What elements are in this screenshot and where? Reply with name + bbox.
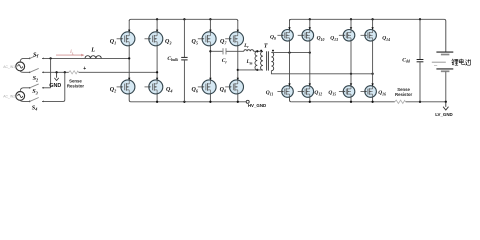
label Q12	[314, 90, 322, 96]
junction bottom rail x157.1	[156, 101, 158, 103]
wire mid leg3	[209, 46, 211, 81]
label Q15	[328, 90, 336, 96]
junction sec top rail x351.0	[350, 18, 352, 20]
wire sec bottom lead leg3	[350, 97, 352, 102]
phase dot primary	[260, 50, 262, 52]
wire top lead leg1	[128, 20, 130, 32]
node GND tap	[55, 71, 57, 73]
mosfet Q8	[225, 80, 243, 94]
label Q14	[382, 35, 390, 41]
mosfet Q5	[198, 32, 216, 46]
wire secondary top rail	[290, 19, 446, 51]
capacitor Cdd	[402, 19, 423, 102]
node S4 tap on line B	[64, 71, 66, 73]
label Q8	[220, 87, 227, 93]
ac source AC_IN2	[3, 92, 24, 101]
label Q3	[165, 39, 171, 45]
label Q6	[192, 87, 199, 93]
node sec bottom leg3	[350, 73, 352, 75]
wire sec mid leg1	[288, 41, 290, 86]
switch S4	[29, 98, 44, 112]
wire top lead leg4	[237, 20, 239, 32]
current arrow iL	[56, 49, 85, 56]
mosfet Q10	[298, 30, 314, 42]
wire secondary bottom wire	[271, 71, 372, 74]
mosfet Q16	[361, 86, 377, 98]
wire sec top lead leg1	[288, 19, 290, 30]
wire mid leg1	[128, 46, 130, 81]
junction top rail x157.1	[156, 18, 158, 20]
wire sec top lead leg3	[350, 19, 352, 30]
svg-text:Q1: Q1	[110, 39, 116, 45]
junction sec bottom rail x309.8	[309, 101, 311, 103]
wire tank bottom	[238, 69, 263, 71]
node S3 tap on line A	[49, 57, 51, 59]
wire secondary top wire	[271, 52, 309, 54]
label Q10	[317, 35, 325, 41]
svg-text:Resistor: Resistor	[67, 84, 85, 89]
plus sign sense1	[83, 66, 86, 72]
wire secondary bottom rail	[291, 101, 446, 103]
label Q16	[378, 90, 386, 96]
wire bottom lead leg4	[237, 94, 239, 102]
svg-text:+: +	[83, 66, 86, 72]
sense resistor 2	[395, 87, 413, 103]
mosfet Q15	[339, 86, 355, 98]
transformer core	[267, 51, 269, 70]
inductor Lr	[243, 43, 253, 52]
phase dot secondary	[272, 50, 274, 52]
wire AC2 top stub	[20, 88, 29, 92]
wire Lr to transformer	[254, 50, 263, 52]
svg-text:HV_GND: HV_GND	[248, 103, 266, 108]
wire line A	[42, 57, 129, 59]
junction top rail x184.4	[183, 18, 185, 20]
label Q2	[110, 87, 116, 93]
junction sec top rail x309.8	[309, 18, 311, 20]
svg-text:GND: GND	[49, 83, 61, 89]
node battery bottom	[445, 101, 447, 103]
svg-text:LV_GND: LV_GND	[435, 112, 452, 117]
transformer T secondary winding	[271, 52, 273, 70]
wire sec bottom lead leg2	[309, 97, 311, 102]
transformer T primary winding	[261, 52, 263, 70]
label Q5	[192, 39, 198, 45]
svg-text:Q5: Q5	[192, 39, 198, 45]
node sec bottom leg4	[371, 73, 373, 75]
wire sec top lead leg2	[309, 19, 311, 30]
wire primary top rail	[129, 19, 238, 21]
wire tank top	[210, 50, 222, 52]
mosfet Q9	[277, 30, 293, 42]
ground LV_GND	[435, 102, 452, 117]
battery cell plates	[432, 52, 454, 71]
node A	[128, 57, 130, 59]
wire bottom lead leg2	[156, 94, 158, 102]
switch S1	[29, 51, 44, 59]
wire sec mid leg3	[350, 41, 352, 86]
svg-text:Q6: Q6	[192, 87, 199, 93]
terminal HV_GND	[246, 100, 266, 108]
junction bottom rail x237.8	[237, 101, 239, 103]
label T	[264, 42, 268, 49]
svg-text:L: L	[90, 47, 95, 54]
switch S3	[29, 84, 44, 96]
node sec top leg2	[309, 51, 311, 53]
wire S3 horizontal	[42, 87, 51, 89]
svg-text:T: T	[264, 42, 268, 49]
wire sec bottom lead leg1 + rail corner	[290, 97, 292, 102]
svg-text:Q7: Q7	[220, 39, 227, 45]
svg-text:Q2: Q2	[110, 87, 116, 93]
junction sec top rail x420.0	[419, 18, 421, 20]
wire S3 riser	[50, 58, 52, 87]
junction top rail x210.4	[209, 18, 211, 20]
mosfet Q6	[198, 80, 216, 94]
mosfet Q1	[117, 32, 135, 46]
sense resistor 1	[67, 71, 85, 89]
inductor Lm	[246, 51, 258, 70]
junction sec bottom rail x351.0	[350, 101, 352, 103]
svg-text:AC_IN1: AC_IN1	[3, 65, 15, 69]
junction bottom rail x184.4	[183, 101, 185, 103]
wire Cr to Lr	[226, 50, 244, 52]
svg-text:Q8: Q8	[220, 87, 227, 93]
wire mid leg4	[237, 46, 239, 81]
junction bottom rail x210.4	[209, 101, 211, 103]
svg-text:Q4: Q4	[166, 87, 172, 93]
mosfet Q4	[145, 80, 163, 94]
wire top lead leg2	[156, 19, 158, 32]
svg-text:AC_IN2: AC_IN2	[3, 95, 15, 99]
wire mid leg2	[156, 46, 158, 81]
wire sec mid leg2	[309, 41, 311, 86]
wire bottom lead leg3	[209, 94, 211, 102]
label Q1	[110, 39, 116, 45]
wire bottom lead leg1 + bottom rail corner	[129, 94, 131, 102]
label Q9	[270, 34, 276, 40]
node Lm bottom	[256, 69, 258, 71]
junction sec bottom rail x420.0	[419, 101, 421, 103]
junction sec bottom rail x372.6	[371, 101, 373, 103]
wire S4 to riser	[42, 72, 65, 101]
label Q7	[220, 39, 227, 45]
mosfet Q7	[225, 32, 243, 46]
capacitor C_bulk	[167, 19, 187, 102]
mosfet Q3	[145, 32, 163, 46]
mosfet Q12	[298, 86, 314, 98]
inductor L	[85, 47, 101, 59]
ground GND	[49, 72, 61, 89]
wire sec bottom lead leg4	[372, 97, 374, 102]
ac source AC_IN1	[3, 62, 24, 71]
label Q13	[330, 35, 338, 41]
mosfet Q2	[117, 80, 135, 94]
wire top lead leg3	[209, 19, 211, 32]
wire primary bottom rail	[131, 101, 246, 103]
label battery 锂电池	[452, 59, 471, 65]
wire sec top lead leg4	[371, 19, 373, 30]
wire AC1 bottom stub	[20, 71, 29, 73]
svg-text:Resistor: Resistor	[395, 92, 413, 97]
node tank top	[209, 50, 211, 52]
wire AC2 bottom stub	[20, 100, 29, 101]
wire line B	[42, 71, 157, 73]
label Q11	[266, 90, 274, 96]
wire battery bottom lead	[445, 72, 447, 102]
wire AC1 top stub	[20, 58, 29, 62]
label Q4	[166, 87, 172, 93]
mosfet Q13	[339, 30, 355, 42]
node tank bottom	[237, 69, 239, 71]
switch S2	[29, 68, 44, 82]
node sec top leg1	[288, 51, 290, 53]
mosfet Q14	[361, 30, 377, 42]
capacitor Cr	[222, 48, 228, 64]
svg-text:Q3: Q3	[165, 39, 171, 45]
node B	[156, 71, 158, 73]
mosfet Q11	[277, 86, 293, 98]
node Lm top	[256, 50, 258, 52]
wire sec mid leg4	[371, 41, 373, 86]
junction sec top rail x372.6	[371, 18, 373, 20]
